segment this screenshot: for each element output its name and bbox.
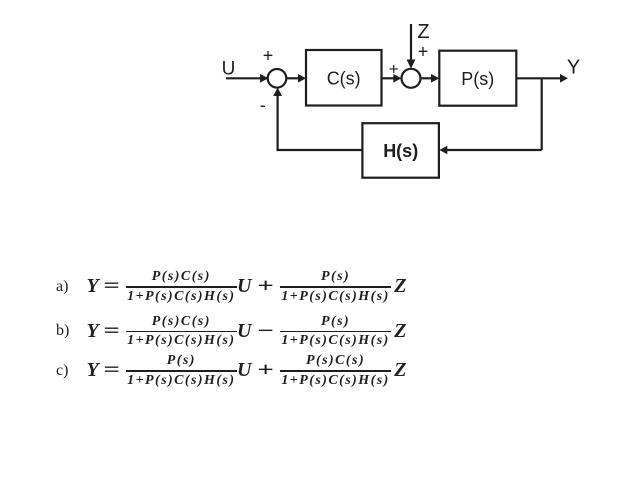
wire U to summer 1 xyxy=(226,77,261,79)
wire branch down from output xyxy=(541,78,543,150)
fraction c2 xyxy=(280,353,390,389)
equation b xyxy=(56,314,406,350)
svg-text:H(s): H(s) xyxy=(383,141,418,161)
svg-text:Y: Y xyxy=(567,57,580,79)
fraction c1 xyxy=(126,353,236,389)
summing junction S1 xyxy=(268,69,287,88)
wire Z to summer 2 xyxy=(410,24,412,60)
wire summer1 to C(s) xyxy=(286,77,299,79)
svg-text:P(s): P(s) xyxy=(461,69,494,89)
fraction a2 xyxy=(280,269,390,305)
svg-text:+: + xyxy=(418,42,429,62)
wire H(s) to feedback left xyxy=(277,149,363,151)
equation a xyxy=(56,269,406,305)
wire to H(s) input xyxy=(446,149,542,151)
svg-text:-: - xyxy=(260,95,266,115)
summing junction S2 xyxy=(402,69,421,88)
block C(s) xyxy=(306,50,382,106)
fraction b2 xyxy=(280,314,390,350)
wire P(s) to Y output xyxy=(516,77,561,79)
wire feedback up into summer 1 xyxy=(277,94,279,151)
svg-text:Z: Z xyxy=(417,21,429,43)
wire summer 2 to P(s) xyxy=(421,77,433,79)
svg-text:+: + xyxy=(389,60,399,79)
fraction a1 xyxy=(126,269,236,305)
wire C(s) to summer 2 xyxy=(382,77,396,79)
svg-text:U: U xyxy=(222,59,236,80)
svg-text:+: + xyxy=(263,46,274,66)
block P(s) xyxy=(439,51,516,106)
fraction b1 xyxy=(126,314,236,350)
block H(s) xyxy=(362,123,439,178)
svg-text:C(s): C(s) xyxy=(327,69,361,89)
equation c xyxy=(56,353,406,389)
